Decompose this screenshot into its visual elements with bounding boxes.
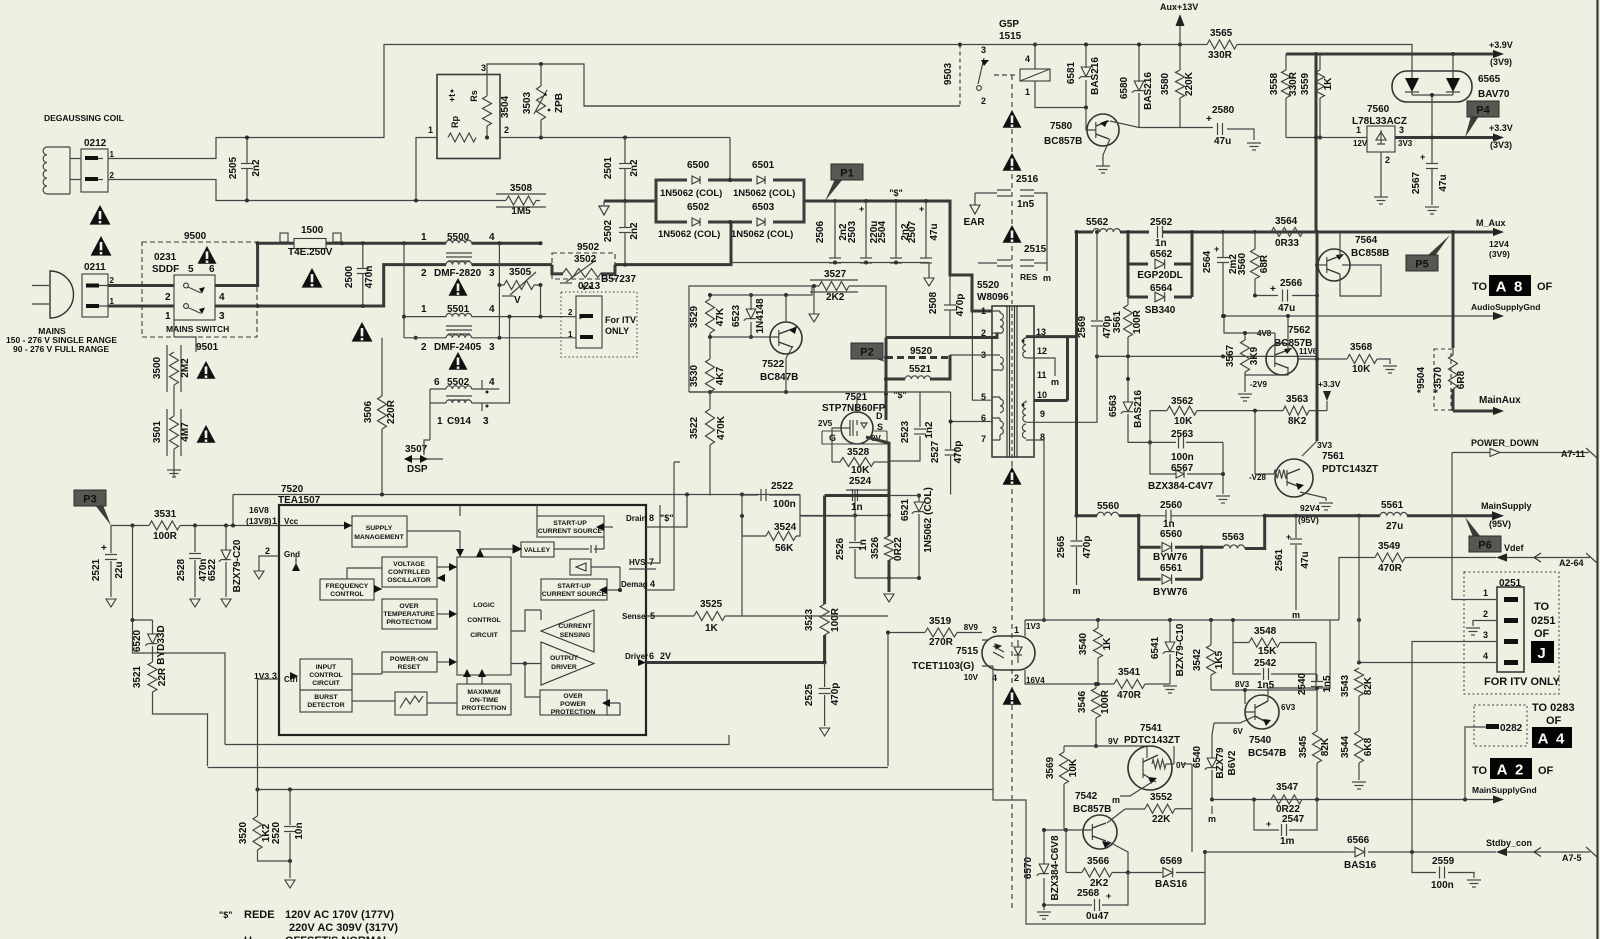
7542 emitter [1107, 841, 1128, 873]
burst detector block [300, 690, 352, 712]
svg-text:+: + [859, 204, 864, 214]
svg-text:P2: P2 [860, 347, 873, 359]
resistor 3564 0R33 [1271, 228, 1303, 237]
rail +3.3V [1286, 137, 1367, 139]
svg-text:92V4: 92V4 [1300, 503, 1320, 513]
7540 emitter [1214, 716, 1255, 723]
svg-text:FREQUENCY: FREQUENCY [326, 583, 369, 590]
svg-text:3523: 3523 [804, 608, 815, 631]
ptc unit 3504 Rp Rs [437, 75, 500, 159]
svg-text:P5: P5 [1415, 259, 1428, 271]
svg-text:0251: 0251 [1499, 578, 1522, 589]
wire degauss pin1 to cap 2505 and top rail [70, 45, 960, 159]
svg-text:9500: 9500 [184, 231, 207, 242]
svg-text:6V: 6V [1233, 727, 1243, 736]
svg-text:BAS16: BAS16 [1155, 879, 1188, 890]
resistor 3552 22K [1145, 804, 1175, 813]
driver output thick [646, 661, 825, 664]
svg-text:47u: 47u [1300, 551, 1311, 568]
svg-text:3: 3 [481, 63, 486, 73]
wire relay pin1 [1035, 81, 1086, 108]
svg-text:TO: TO [1472, 765, 1488, 777]
wire lower to switch [584, 105, 960, 107]
svg-text:A 2: A 2 [1497, 761, 1526, 778]
svg-text:2564: 2564 [1202, 250, 1213, 273]
secondary winding 13-12 [1023, 338, 1026, 358]
svg-text:220V AC 309V (317V): 220V AC 309V (317V) [289, 922, 398, 934]
svg-text:2M2: 2M2 [180, 358, 191, 378]
svg-text:3: 3 [1483, 630, 1488, 640]
svg-text:DEGAUSSING COIL: DEGAUSSING COIL [44, 113, 124, 123]
svg-text:3562: 3562 [1171, 396, 1194, 407]
svg-text:Demag: Demag [621, 580, 648, 589]
svg-text:LOGIC: LOGIC [473, 602, 495, 609]
resistor 3543 82K [1358, 516, 1360, 663]
svg-text:2522: 2522 [771, 481, 794, 492]
7540 base [1211, 690, 1255, 712]
svg-text:3548: 3548 [1254, 626, 1277, 637]
diode 6563 BAS216 [1127, 356, 1129, 402]
svg-text:2580: 2580 [1212, 105, 1235, 116]
resistor 3548 15K [1232, 620, 1234, 643]
svg-text:47K: 47K [715, 307, 726, 326]
resistor 3523 100R thick feed [823, 635, 826, 663]
resistor 3530 4K7 [709, 337, 711, 359]
svg-text:3563: 3563 [1286, 394, 1309, 405]
svg-text:470K: 470K [716, 415, 727, 440]
svg-text:3K9: 3K9 [1249, 346, 1260, 365]
capacitor 2567 47u [1431, 138, 1433, 206]
svg-text:Gnd: Gnd [284, 550, 300, 559]
svg-text:RESET: RESET [398, 664, 422, 671]
svg-text:6560: 6560 [1160, 529, 1183, 540]
svg-text:6503: 6503 [752, 202, 775, 213]
svg-text:0V: 0V [1176, 761, 1186, 770]
capacitor 2520 10n [289, 790, 291, 862]
svg-text:1: 1 [110, 150, 115, 159]
svg-text:3524: 3524 [774, 522, 797, 533]
over temperature protection block [382, 599, 437, 629]
primary winding 3-5 [1000, 357, 1003, 371]
output driver triangle [541, 642, 594, 685]
svg-text:2542: 2542 [1254, 658, 1277, 669]
wire pin6 to 2527 [951, 421, 992, 423]
warning triangle [197, 425, 216, 443]
svg-text:6561: 6561 [1160, 563, 1183, 574]
ear arrow [974, 193, 976, 205]
resistor 3563 8K2 [1283, 406, 1309, 415]
svg-text:2: 2 [568, 308, 573, 317]
wire pin5 to primary elbow [972, 311, 992, 400]
svg-text:+: + [1106, 891, 1111, 901]
svg-text:OF: OF [1534, 628, 1550, 640]
svg-text:0212: 0212 [84, 138, 107, 149]
svg-text:+: + [1214, 244, 1219, 254]
svg-text:(3V3): (3V3) [1490, 140, 1512, 150]
svg-text:1K: 1K [1323, 77, 1334, 91]
svg-text:3: 3 [981, 45, 986, 55]
svg-text:VALLEY: VALLEY [524, 547, 551, 554]
wire degauss pin2 lower [70, 180, 506, 201]
aux 13V arrow [1179, 26, 1181, 45]
7561 base wire [1254, 411, 1256, 474]
svg-text:3: 3 [489, 342, 495, 353]
svg-text:9502: 9502 [577, 242, 600, 253]
svg-text:1: 1 [1025, 87, 1030, 97]
col arrow ground [604, 200, 656, 203]
input control circuit block [300, 659, 352, 690]
svg-text:3522: 3522 [689, 416, 700, 439]
wire ptc pin2 rail [500, 137, 730, 139]
thermistor 3503 ZPB [540, 64, 542, 86]
svg-text:D: D [876, 411, 883, 421]
wire 5500 out bottom to 9502 [472, 263, 552, 266]
svg-text:A 4: A 4 [1538, 730, 1567, 747]
svg-text:1: 1 [1483, 588, 1488, 598]
svg-text:100n: 100n [773, 499, 796, 510]
svg-text:1V3: 1V3 [1026, 622, 1041, 631]
svg-text:+: + [101, 543, 107, 554]
resistor 3525 1K [694, 612, 725, 621]
svg-text:2523: 2523 [900, 420, 911, 443]
svg-text:2528: 2528 [176, 558, 187, 581]
svg-text:2: 2 [421, 268, 427, 279]
svg-text:2500: 2500 [344, 265, 355, 288]
svg-text:Drain: Drain [626, 514, 647, 523]
svg-text:BZX79-C10: BZX79-C10 [1175, 623, 1186, 676]
svg-text:1: 1 [165, 311, 171, 322]
thick aux vertical [1452, 232, 1455, 348]
svg-text:1500: 1500 [301, 225, 324, 236]
svg-text:330R: 330R [1208, 50, 1233, 61]
svg-text:1: 1 [981, 306, 986, 316]
resistors 3500 2M2 / 3501 4M7 bleeders [174, 320, 196, 352]
capacitor 2526 1n [854, 516, 856, 579]
svg-text:TO: TO [1534, 601, 1550, 613]
resistor 3526 0R22 [885, 536, 894, 560]
link 9502 / PTC 3502 B57237 [552, 253, 615, 279]
svg-text:3520: 3520 [238, 821, 249, 844]
svg-text:1n5: 1n5 [1017, 199, 1035, 210]
svg-text:0211: 0211 [84, 262, 106, 273]
svg-text:2501: 2501 [603, 156, 614, 179]
svg-text:1K5: 1K5 [1214, 650, 1225, 669]
svg-text:+: + [919, 204, 924, 214]
svg-text:6569: 6569 [1160, 856, 1183, 867]
svg-text:(3V9): (3V9) [1489, 249, 1510, 259]
resistor 3541 470R [1114, 680, 1145, 689]
svg-text:10K: 10K [1174, 416, 1193, 427]
svg-text:(3V9): (3V9) [1490, 57, 1512, 67]
svg-text:6V3: 6V3 [1281, 703, 1296, 712]
svg-text:9503: 9503 [943, 62, 954, 85]
svg-text:22R: 22R [157, 667, 168, 686]
svg-text:P3: P3 [83, 494, 96, 506]
svg-text:PROTECTIOM: PROTECTIOM [386, 619, 432, 626]
capacitor 2580 47u [1180, 128, 1254, 141]
svg-text:CONTROL: CONTROL [467, 617, 501, 624]
svg-text:2568: 2568 [1077, 888, 1100, 899]
connector 0282 [1486, 724, 1499, 729]
mosfet drain wire [885, 338, 888, 421]
start-up current source block 1 [537, 516, 604, 537]
svg-text:47u: 47u [1278, 303, 1295, 314]
svg-text:6562: 6562 [1150, 249, 1173, 260]
thick source vertical [888, 496, 891, 537]
svg-text:A7-11: A7-11 [1561, 449, 1585, 459]
svg-text:BZX384-C6V8: BZX384-C6V8 [1050, 835, 1061, 900]
svg-text:M_Aux: M_Aux [1476, 218, 1506, 228]
wire pin8 down [1034, 440, 1044, 487]
svg-text:2: 2 [1483, 609, 1488, 619]
svg-text:1K: 1K [705, 623, 719, 634]
svg-text:4: 4 [489, 232, 495, 243]
svg-text:12V: 12V [1353, 139, 1368, 148]
svg-text:RES: RES [1020, 272, 1038, 282]
capacitor 2561 47u [1295, 516, 1297, 610]
long rail 494.5 [233, 494, 800, 496]
zener 6541 BZX79-C10 [1169, 620, 1171, 684]
resistor 3522 470K [706, 409, 715, 445]
svg-text:3506: 3506 [363, 400, 374, 423]
svg-text:11: 11 [1037, 370, 1047, 380]
svg-text:m: m [1051, 377, 1059, 387]
rail +3.9V [1286, 53, 1493, 56]
svg-text:ZPB: ZPB [554, 93, 565, 113]
svg-text:220K: 220K [1184, 71, 1195, 96]
warning triangle [302, 268, 323, 288]
maximum on-time protection block [457, 684, 511, 715]
svg-text:DETECTOR: DETECTOR [307, 702, 344, 709]
svg-text:1: 1 [421, 304, 427, 315]
svg-text:3501: 3501 [152, 420, 163, 443]
svg-text:9: 9 [1040, 409, 1045, 419]
svg-text:6520: 6520 [132, 629, 143, 652]
resistor 3566 2K2 [1082, 868, 1112, 877]
wire fuse to filter 5500 pin1 [326, 242, 446, 245]
svg-text:330R: 330R [1288, 71, 1299, 96]
resistor 3561 100R [1127, 297, 1129, 305]
svg-text:PROTECTION: PROTECTION [551, 709, 596, 716]
svg-text:7521: 7521 [845, 392, 868, 403]
svg-text:Driver: Driver [625, 652, 648, 661]
svg-text:9520: 9520 [910, 346, 933, 357]
svg-text:3559: 3559 [1300, 72, 1311, 95]
wire 2522 node to source net [800, 515, 855, 517]
svg-text:MainSupplyGnd: MainSupplyGnd [1472, 785, 1537, 795]
svg-text:7580: 7580 [1050, 121, 1073, 132]
svg-text:56K: 56K [775, 543, 794, 554]
svg-text:7542: 7542 [1075, 791, 1098, 802]
capacitor 2527 470p [950, 392, 952, 495]
capacitor 2521 22u [110, 526, 112, 598]
svg-text:DMF-2820: DMF-2820 [434, 268, 482, 279]
warning triangle [352, 322, 373, 342]
resistor 3568 10K [1298, 358, 1347, 360]
svg-text:OVER: OVER [563, 693, 582, 700]
isolation dashed line [1011, 75, 1013, 300]
frequency control block [320, 579, 374, 600]
svg-text:6563: 6563 [1108, 394, 1119, 417]
wire 5502 leads [429, 389, 431, 440]
svg-text:0231: 0231 [154, 252, 177, 263]
supply management block [352, 516, 407, 547]
connector 0251 box [1464, 572, 1559, 694]
capacitor 2566 47u [1255, 295, 1317, 297]
svg-text:82K: 82K [1320, 737, 1331, 756]
svg-text:4: 4 [1025, 54, 1030, 64]
wire relay to rail [1034, 45, 1036, 70]
resistor 3547 0R22 [1271, 795, 1302, 804]
svg-text:P6: P6 [1478, 540, 1491, 552]
svg-text:2508: 2508 [928, 291, 939, 314]
flag P3 [95, 505, 111, 526]
svg-text:1N5062 (COL): 1N5062 (COL) [731, 229, 793, 240]
svg-text:1: 1 [1014, 625, 1019, 635]
zener 6522 BZX79-C20 [225, 526, 227, 598]
svg-text:1n5: 1n5 [1257, 680, 1275, 691]
wire 11V6 vertical link [1316, 296, 1318, 360]
7564 collector loop [1340, 265, 1381, 296]
svg-text:2524: 2524 [849, 476, 872, 487]
svg-text:+: + [1270, 284, 1276, 295]
svg-text:6: 6 [649, 651, 654, 661]
svg-text:Rs: Rs [469, 90, 479, 102]
svg-text:OVER: OVER [399, 603, 418, 610]
svg-text:3547: 3547 [1276, 782, 1299, 793]
svg-text:2559: 2559 [1432, 856, 1455, 867]
svg-text:3565: 3565 [1210, 28, 1233, 39]
cap bank 2504 2n2 [895, 201, 897, 263]
svg-text:1N5062 (COL): 1N5062 (COL) [658, 229, 720, 240]
sense rail [800, 515, 889, 517]
sawtooth block [395, 692, 427, 715]
svg-text:3505: 3505 [509, 267, 532, 278]
svg-text:100R: 100R [153, 531, 178, 542]
svg-text:*3570: *3570 [1433, 366, 1444, 393]
svg-text:12V4: 12V4 [1489, 239, 1509, 249]
cap bank 2507 47u [925, 201, 927, 263]
svg-text:"$": "$" [889, 188, 903, 198]
voltage controlled oscillator block [382, 557, 437, 587]
svg-text:OUTPUT: OUTPUT [550, 655, 579, 662]
svg-text:0282: 0282 [1500, 723, 1523, 734]
warning triangle [1003, 225, 1022, 243]
svg-text:A7-5: A7-5 [1562, 853, 1582, 863]
logic control circuit block [457, 557, 511, 675]
svg-text:J: J [1537, 645, 1547, 662]
resistor 3580 220K [1179, 45, 1181, 71]
gnd m 6540 [1211, 780, 1213, 800]
primary winding 1-2 [1000, 313, 1003, 333]
svg-text:5521: 5521 [909, 364, 932, 375]
svg-text:4: 4 [489, 304, 495, 315]
svg-text:10K: 10K [851, 465, 870, 476]
7561 collector from 3V3 [1316, 232, 1319, 441]
svg-text:2520: 2520 [271, 821, 282, 844]
svg-text:1n5: 1n5 [1322, 675, 1333, 693]
svg-text:CIRCUIT: CIRCUIT [312, 680, 340, 687]
svg-text:27u: 27u [1386, 521, 1403, 532]
svg-text:1K: 1K [1102, 637, 1113, 651]
svg-text:3V3: 3V3 [1317, 440, 1332, 450]
svg-text:2547: 2547 [1282, 814, 1305, 825]
resistor 3508 1M5 [506, 196, 536, 205]
svg-text:6581: 6581 [1066, 61, 1077, 84]
svg-text:TEMPERATURE: TEMPERATURE [383, 611, 435, 618]
svg-text:2: 2 [110, 276, 115, 285]
svg-text:1515: 1515 [999, 31, 1022, 42]
svg-text:3500: 3500 [152, 356, 163, 379]
wire pin13 to aux rail [1026, 335, 1077, 338]
mains plug [50, 271, 74, 318]
audio supply gnd rail [1223, 315, 1493, 317]
svg-text:0251: 0251 [1531, 615, 1555, 627]
capacitor 2505 2n2 [246, 138, 248, 201]
svg-text:7515: 7515 [956, 646, 979, 657]
warning triangle [90, 205, 111, 225]
7542 base node [1064, 828, 1068, 832]
wire pin12 tap ground [1028, 358, 1055, 376]
diode 6523 1N4148 [750, 295, 752, 337]
diode 6520 BYD33D [133, 526, 153, 635]
svg-text:470p: 470p [830, 683, 841, 706]
svg-text:6500: 6500 [687, 160, 710, 171]
7542 collector to 3552 [1107, 809, 1125, 823]
svg-text:2521: 2521 [91, 558, 102, 581]
svg-text:INPUT: INPUT [316, 664, 337, 671]
svg-text:470p: 470p [953, 441, 964, 464]
svg-text:BURST: BURST [314, 694, 338, 701]
svg-text:ON-TIME: ON-TIME [470, 697, 499, 704]
svg-text:3508: 3508 [510, 183, 533, 194]
capacitor 2568 0u47 [1044, 873, 1128, 906]
connector 0211 [82, 274, 108, 317]
7540 collector [1268, 620, 1330, 701]
thick primary return pin2 [997, 332, 1000, 334]
cap bank 2506 2n2 [834, 201, 836, 263]
svg-text:7564: 7564 [1355, 235, 1378, 246]
secondary winding 10-9 [1023, 402, 1026, 422]
warning triangle [1003, 467, 1022, 485]
svg-text:2566: 2566 [1280, 278, 1303, 289]
svg-text:1N5062 (COL): 1N5062 (COL) [733, 188, 795, 199]
svg-text:3: 3 [483, 416, 489, 427]
svg-text:3504: 3504 [500, 95, 511, 118]
opto pin wires [1024, 620, 1026, 636]
svg-text:22K: 22K [1152, 814, 1171, 825]
main supply gnd rail [1212, 799, 1493, 801]
wire pin9 return [1034, 356, 1097, 422]
svg-text:3529: 3529 [689, 305, 700, 328]
svg-text:BZX79: BZX79 [1215, 747, 1226, 779]
svg-text:+3.9V: +3.9V [1489, 40, 1513, 50]
svg-text:3560: 3560 [1237, 252, 1248, 275]
over power protection block [540, 690, 607, 715]
svg-text:A2-64: A2-64 [1559, 558, 1584, 568]
capacitor 2565 470p [1076, 516, 1078, 585]
svg-text:6566: 6566 [1347, 835, 1370, 846]
svg-text:6540: 6540 [1192, 745, 1203, 768]
svg-text:7540: 7540 [1249, 735, 1272, 746]
svg-text:+: + [1286, 532, 1291, 542]
svg-text:2502: 2502 [603, 219, 614, 242]
diode 6580 BAS216 [1138, 45, 1140, 128]
svg-text:(95V): (95V) [1298, 515, 1319, 525]
wire bridge bottom feed [730, 222, 733, 263]
svg-text:4: 4 [489, 377, 495, 388]
ic internal wires [279, 525, 352, 527]
